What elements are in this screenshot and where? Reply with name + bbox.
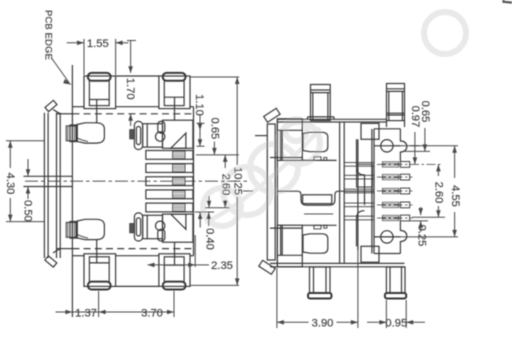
svg-text:0.95: 0.95 — [385, 318, 407, 330]
svg-text:1.55: 1.55 — [87, 38, 109, 50]
pad link line bottom — [116, 285, 159, 287]
contact tip line — [357, 139, 359, 250]
pad link line top — [116, 75, 159, 77]
svg-text:0.65: 0.65 — [419, 101, 431, 123]
left contact upper — [66, 126, 76, 141]
hole circle upper — [381, 140, 393, 152]
svg-text:3.70: 3.70 — [141, 308, 163, 320]
left contact lower — [66, 222, 76, 237]
SMT lead row 5 (right view) — [344, 215, 374, 217]
pad2b center line — [174, 242, 176, 265]
right view pad tip box — [267, 124, 275, 260]
solder pad bottom-right — [159, 254, 190, 287]
SMT lead row 4 (left view) — [146, 190, 193, 199]
svg-text:0.65: 0.65 — [208, 118, 220, 140]
dimension 2.60 right — [412, 216, 445, 218]
corner tab top-left — [45, 100, 57, 111]
SMT lead row 1 (right view) — [344, 162, 374, 164]
corner mark — [504, 0, 512, 3]
right view pad A — [277, 119, 302, 161]
bottom tab 1 (mounting pin) — [310, 267, 331, 293]
svg-text:0.40: 0.40 — [204, 228, 216, 250]
top tab 1 (mounting pin) — [311, 85, 331, 121]
right view pad B — [277, 225, 302, 267]
svg-text:3.90: 3.90 — [312, 318, 334, 330]
bottom tab 2 (mounting pin) — [386, 267, 405, 293]
inner contact shape upper — [303, 132, 328, 151]
SMT lead row 2 (left view) — [146, 164, 193, 173]
dimension 1.37 — [98, 291, 100, 317]
dimension 4.55 — [394, 145, 458, 147]
SMT lead row 5 (left view) — [146, 203, 193, 212]
contact carrier block — [373, 129, 375, 254]
dimension 4.30 — [6, 140, 44, 142]
svg-text:4.55: 4.55 — [449, 185, 461, 207]
dimension 10.25 — [190, 76, 239, 78]
svg-text:4.30: 4.30 — [4, 173, 16, 195]
dimension 0.50 — [27, 159, 29, 176]
svg-text:2.35: 2.35 — [211, 260, 233, 272]
corner tab bottom (right view) — [259, 260, 275, 274]
dimension 1.55 — [83, 39, 85, 75]
centerline left view — [25, 180, 250, 182]
svg-text:1.37: 1.37 — [75, 308, 97, 320]
SMT lead row 4 (right view) — [344, 202, 374, 204]
hole circle lower — [381, 231, 393, 243]
dimension 0.40 — [195, 211, 214, 213]
top tab 2 (mounting pin) — [387, 84, 405, 121]
contact front profile — [357, 139, 365, 205]
contact assembly lower — [134, 213, 142, 241]
inner contact shape lower — [303, 234, 328, 253]
PCB edge line — [71, 65, 73, 317]
svg-text:1.10: 1.10 — [193, 94, 205, 116]
contact assembly upper — [134, 121, 142, 149]
centerline right view — [243, 190, 253, 192]
SMT lead row 3 (left view) — [146, 177, 193, 186]
solder pad top-left — [84, 76, 116, 109]
svg-text:2.60: 2.60 — [433, 182, 445, 204]
svg-text:PCB EDGE: PCB EDGE — [44, 10, 55, 60]
pad2 center line — [174, 97, 176, 120]
dimension 2.60 left — [205, 207, 229, 209]
dimension 1.10 — [197, 122, 205, 124]
svg-text:10.25: 10.25 — [232, 167, 244, 195]
solder pad bottom-left — [84, 254, 116, 287]
corner tab bottom-left — [45, 256, 57, 267]
solder pad top-right — [159, 76, 190, 109]
step line lower — [302, 224, 336, 226]
step line upper — [302, 159, 336, 161]
svg-text:1.70: 1.70 — [124, 78, 136, 100]
left view shield body outline — [43, 113, 45, 258]
pad1 center line — [96, 100, 98, 123]
corner tab top (right view) — [264, 108, 280, 122]
dimension 0.25 right — [410, 220, 428, 222]
inner block upper — [361, 123, 379, 139]
svg-text:2.60: 2.60 — [220, 174, 232, 196]
dimension 3.70 — [99, 311, 174, 313]
svg-text:0.50: 0.50 — [22, 200, 34, 222]
center pocket — [278, 190, 299, 192]
dimension 0.95 — [385, 300, 387, 328]
dimension 2.35 — [194, 235, 196, 267]
SMT lead row 3 (right view) — [344, 188, 374, 190]
SMT lead row 1 (left view) — [146, 151, 193, 160]
pad1b center line — [96, 240, 98, 263]
SMT lead row 2 (right view) — [344, 174, 374, 176]
right view body outline — [276, 119, 278, 267]
watermark — [203, 12, 466, 226]
inner block lower — [361, 246, 379, 262]
svg-text:0.25: 0.25 — [415, 225, 427, 247]
inner wall — [339, 122, 341, 263]
dimension 3.90 — [276, 268, 278, 328]
dimension 1.70 — [127, 40, 136, 42]
